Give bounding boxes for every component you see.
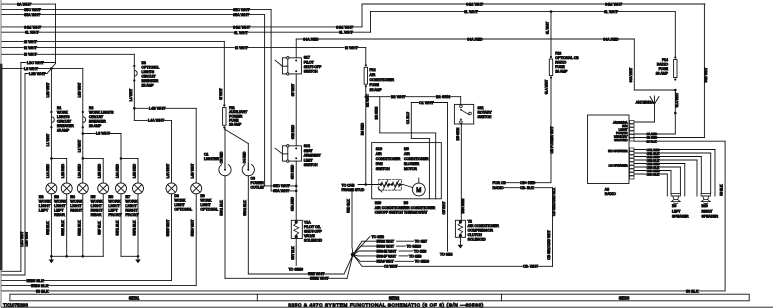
wire CB ground BLK drop bbox=[552, 188, 554, 267]
svg-text:L1 WHT: L1 WHT bbox=[46, 134, 50, 146]
svg-text:B5A GRN: B5A GRN bbox=[461, 198, 465, 213]
wire 6LA WHT to radio pin bbox=[674, 90, 676, 134]
wire lamp E4 ground lead bbox=[82, 194, 84, 257]
svg-text:55A2 BLK: 55A2 BLK bbox=[243, 200, 247, 216]
label 2I WHT left bbox=[24, 40, 37, 44]
wire 64B WHT drop bbox=[703, 4, 705, 138]
wire radio memory 64B bbox=[634, 137, 704, 139]
solenoid Y2 compressor clutch bbox=[455, 220, 465, 237]
wire CB- BLK bbox=[504, 187, 553, 189]
label 6L WHT mid1 bbox=[234, 31, 247, 35]
svg-text:64M WHT: 64M WHT bbox=[466, 2, 484, 6]
wire CH3 BLK bbox=[634, 166, 680, 168]
svg-text:55F BLK: 55F BLK bbox=[98, 221, 102, 235]
svg-text:M: M bbox=[416, 188, 421, 194]
wire lamp E2 top lead bbox=[50, 158, 52, 183]
wire L3 WHT feeder bbox=[2, 67, 83, 69]
wire CB+ RED bbox=[504, 182, 551, 184]
junction work light feed bbox=[50, 67, 53, 70]
motor M6 blower bbox=[403, 178, 425, 196]
svg-text:RH SPEAKER: RH SPEAKER bbox=[608, 149, 628, 153]
page edge line bbox=[0, 0, 2, 307]
wire feeder E2-E3 bbox=[51, 157, 66, 159]
svg-text:TO SE7: TO SE7 bbox=[415, 240, 427, 244]
svg-text:L3A RED: L3A RED bbox=[116, 163, 120, 177]
label 55E2 WHT bbox=[310, 276, 327, 280]
svg-text:L1B RED: L1B RED bbox=[61, 163, 65, 178]
svg-text:TO SE9: TO SE9 bbox=[409, 254, 421, 258]
svg-text:56 BLK: 56 BLK bbox=[36, 289, 49, 293]
wire radio IGN 6A RED bbox=[634, 133, 675, 135]
svg-text:6L WHT: 6L WHT bbox=[25, 31, 39, 35]
label 64M WHT right1 bbox=[466, 2, 481, 6]
svg-text:55G4F WHT: 55G4F WHT bbox=[377, 254, 398, 258]
wire 55E WHT to harness splice bbox=[248, 273, 344, 275]
wire B2 WHT line bbox=[366, 96, 461, 98]
wire 64A WHT drop to radio supply bbox=[633, 39, 635, 90]
label CH1 RED bbox=[646, 148, 658, 151]
label 65A WHT low bbox=[273, 189, 288, 193]
svg-text:CB POWER WHT: CB POWER WHT bbox=[550, 126, 554, 153]
wire 65A vertical drop bbox=[264, 15, 266, 186]
svg-text:SE31: SE31 bbox=[129, 296, 140, 301]
label 6L WHT right1 bbox=[464, 10, 477, 14]
lamp E7 bbox=[133, 183, 144, 194]
wire feeder E6-E7 bbox=[121, 157, 138, 159]
svg-text:2I WHT: 2I WHT bbox=[24, 40, 38, 44]
wire lamp E4 top lead bbox=[82, 158, 84, 183]
svg-text:64B WHT: 64B WHT bbox=[704, 68, 708, 83]
switch S17 pilot shut-off bbox=[275, 57, 301, 76]
svg-text:SE33: SE33 bbox=[619, 296, 630, 301]
fuse F13 optional cab radio 10A bbox=[550, 56, 552, 58]
svg-text:L4A WHT: L4A WHT bbox=[166, 164, 170, 179]
wire lighter ground bbox=[224, 176, 226, 278]
svg-text:L2 WHT: L2 WHT bbox=[77, 140, 81, 152]
svg-text:B2 GRN: B2 GRN bbox=[375, 106, 379, 119]
junction L3 node bbox=[82, 132, 85, 135]
frame divider 2 bbox=[501, 294, 503, 301]
splice harness node bbox=[351, 252, 355, 256]
svg-text:ANTENNAIGNLIGHTPOWERMEMORYGROU: ANTENNAIGNLIGHTPOWERMEMORYGROUND bbox=[613, 121, 628, 143]
label CH2 BLK bbox=[646, 159, 658, 162]
svg-text:64A RED: 64A RED bbox=[603, 37, 619, 41]
svg-text:6L WHT: 6L WHT bbox=[234, 31, 248, 35]
svg-text:64M WHT: 64M WHT bbox=[336, 25, 354, 29]
fuse F14 radio 10A bbox=[674, 56, 676, 58]
label 6B RED bbox=[646, 136, 656, 139]
solenoid valve Y1A pilot oil shut-off bbox=[291, 220, 302, 238]
label CB- WHT bbox=[523, 265, 537, 269]
label 36 BLK bbox=[646, 140, 656, 143]
label I3 WHT left bbox=[24, 53, 37, 57]
breaker B3 optional lights 25A bbox=[133, 65, 135, 67]
wire lamp E6 ground lead bbox=[120, 194, 122, 257]
wire power outlet branch bbox=[224, 129, 248, 144]
junction 65A bbox=[295, 190, 298, 193]
speaker B9 left bbox=[671, 194, 680, 204]
label 6L WHT left bbox=[25, 30, 38, 34]
label CH2 RED bbox=[646, 155, 658, 158]
wire CH3 RED bbox=[634, 163, 685, 165]
thermostat dashed enclosure bbox=[379, 179, 402, 190]
svg-text:I3 WHT: I3 WHT bbox=[24, 53, 38, 57]
wire 65C vertical drop bbox=[270, 10, 272, 191]
svg-text:55E2 BLK: 55E2 BLK bbox=[77, 220, 81, 236]
wire F12 feed from I2 bbox=[365, 48, 367, 66]
lamp D9 optional bbox=[166, 183, 177, 194]
svg-text:65B RED: 65B RED bbox=[291, 124, 295, 139]
label 65A WHT mid bbox=[233, 13, 248, 17]
frame divider 1 bbox=[256, 294, 258, 301]
svg-text:6LA WHT: 6LA WHT bbox=[675, 93, 679, 108]
svg-text:325C & 437C SYSTEM FUNCTIONAL: 325C & 437C SYSTEM FUNCTIONAL SCHEMATIC … bbox=[288, 302, 484, 308]
wire 6L WHT bus with jog up bbox=[2, 31, 371, 33]
svg-text:CB- BLK: CB- BLK bbox=[520, 186, 534, 190]
wire lamp E5 top lead bbox=[102, 158, 104, 183]
junction blower feed bbox=[365, 183, 368, 186]
svg-text:65C RED: 65C RED bbox=[291, 164, 295, 179]
svg-text:6L WHT: 6L WHT bbox=[546, 22, 550, 34]
svg-text:6LA WHT: 6LA WHT bbox=[545, 80, 549, 95]
wire outlet ground bbox=[247, 176, 249, 274]
lamp E5 bbox=[98, 183, 109, 194]
label L4A WHT bbox=[148, 119, 163, 123]
junction gnd E4 bbox=[82, 255, 85, 258]
junction gnd E7 bbox=[137, 255, 140, 258]
svg-text:65A WHT: 65A WHT bbox=[24, 13, 41, 17]
radio A3 box bbox=[588, 115, 630, 184]
wire 65 RED S17 to S12 bbox=[295, 74, 297, 146]
wire L3C WHT stub bbox=[21, 62, 56, 64]
wire B1 feed bbox=[50, 68, 52, 158]
label 6L WHT mid2 bbox=[339, 30, 352, 34]
wire CH4 BLK bbox=[634, 173, 667, 175]
svg-text:TO SE30: TO SE30 bbox=[289, 268, 303, 272]
svg-text:56 BLK: 56 BLK bbox=[686, 289, 699, 293]
svg-text:L3 WHT: L3 WHT bbox=[96, 132, 111, 136]
svg-text:CB GROUND WHT: CB GROUND WHT bbox=[547, 230, 551, 259]
label I2 WHT left bbox=[24, 46, 37, 50]
svg-text:55B6 BLK: 55B6 BLK bbox=[31, 284, 49, 288]
svg-text:B3 RED: B3 RED bbox=[360, 122, 364, 135]
svg-text:ANTENNA: ANTENNA bbox=[636, 100, 654, 104]
label CB+ RED bbox=[520, 181, 534, 185]
svg-text:L2A RED: L2A RED bbox=[77, 163, 81, 177]
wire B2 feed bbox=[82, 68, 84, 133]
wire splice to SE3 bbox=[353, 237, 370, 255]
label CH4 RED bbox=[646, 169, 658, 172]
svg-text:55E1 BLK: 55E1 BLK bbox=[61, 220, 65, 236]
wire 65A WHT bus bbox=[2, 14, 265, 16]
blower assembly box bbox=[372, 143, 442, 199]
wire L4A WHT to lamp D9 bbox=[134, 119, 171, 121]
svg-text:55G3 WHT: 55G3 WHT bbox=[377, 245, 395, 249]
label 65C WHT mid bbox=[233, 8, 248, 12]
wire 55A6 WHT bbox=[353, 255, 360, 262]
lighter C1 bbox=[219, 163, 231, 176]
svg-text:L3B WHT: L3B WHT bbox=[46, 83, 50, 98]
svg-text:TO SE19: TO SE19 bbox=[407, 245, 421, 249]
wire CH2 BLK bbox=[634, 159, 697, 161]
wire I2 WHT bus bbox=[2, 47, 366, 49]
wire 55D BLK to splice bbox=[351, 192, 353, 248]
svg-text:64M WHT: 64M WHT bbox=[605, 2, 623, 6]
svg-text:3I WHT: 3I WHT bbox=[219, 88, 223, 100]
label 56 BLK left bbox=[36, 289, 49, 293]
wire 64A RED bus bbox=[296, 38, 634, 40]
svg-text:6L WHT: 6L WHT bbox=[339, 31, 353, 35]
junction L2 feeder bbox=[82, 157, 85, 160]
label L3 WHT right bbox=[96, 132, 109, 136]
label CH4 BLK bbox=[646, 173, 658, 176]
svg-text:L4B WHT: L4B WHT bbox=[149, 107, 166, 111]
wire lamp E7 top lead bbox=[137, 158, 139, 183]
wire L3 WHT to right lamps bbox=[83, 133, 121, 135]
svg-text:L3B WHT: L3B WHT bbox=[77, 83, 81, 98]
lamp E3 bbox=[61, 183, 72, 194]
junction 65D bbox=[295, 185, 298, 188]
wire 56 BLK ground line bbox=[2, 290, 725, 292]
svg-text:55B6 WHT: 55B6 WHT bbox=[191, 220, 195, 237]
svg-text:I2 WHT: I2 WHT bbox=[235, 46, 249, 50]
junction F14 output bbox=[674, 89, 677, 92]
fuse F11 auxiliary power 10A bbox=[223, 104, 225, 106]
svg-text:64M WHT: 64M WHT bbox=[24, 25, 42, 29]
ground left lamp group bbox=[49, 256, 55, 263]
label CH3 BLK bbox=[646, 166, 658, 169]
wire lamp E3 top lead bbox=[66, 158, 68, 183]
svg-text:L4A WHT: L4A WHT bbox=[148, 119, 165, 123]
antenna bbox=[635, 96, 660, 122]
wire lamp E2 ground lead bbox=[50, 194, 52, 257]
wire I3 WHT bus bbox=[2, 53, 134, 55]
wire radio memory link bbox=[634, 89, 675, 91]
wire radio ground 36 BLK bbox=[634, 140, 725, 142]
wire blower switch staircase A bbox=[379, 97, 381, 133]
wire B3 RED fuse to blower bbox=[365, 86, 367, 184]
label 56 BLK right bbox=[686, 289, 699, 293]
label 65C WHT bbox=[24, 8, 39, 12]
svg-text:L4 WHT: L4 WHT bbox=[129, 89, 133, 101]
svg-text:B5 GRN: B5 GRN bbox=[456, 127, 460, 140]
svg-text:L2B RED: L2B RED bbox=[98, 163, 102, 178]
wire CH1 RED bbox=[634, 149, 715, 151]
wire lamp E3 ground lead bbox=[66, 194, 68, 257]
svg-text:B2 GRN: B2 GRN bbox=[436, 95, 450, 99]
wire resistor feed stub bbox=[358, 184, 381, 186]
junction F12 output to blower bbox=[365, 95, 368, 98]
label 64M WHT left bbox=[24, 25, 39, 29]
svg-text:CB- WHT: CB- WHT bbox=[523, 265, 539, 269]
wire 65D WHT link bbox=[265, 185, 297, 187]
svg-text:64A WHT: 64A WHT bbox=[629, 68, 633, 83]
svg-text:65A WHT: 65A WHT bbox=[273, 189, 290, 193]
wire Y2 to ground bbox=[459, 237, 461, 241]
svg-text:I2 WHT: I2 WHT bbox=[345, 46, 359, 50]
svg-text:C1 BLU: C1 BLU bbox=[406, 112, 410, 124]
lamp E4 bbox=[77, 183, 88, 194]
junction L1 feeder bbox=[50, 157, 53, 160]
svg-text:55B5 BLK: 55B5 BLK bbox=[27, 279, 45, 283]
svg-text:55D BLK: 55D BLK bbox=[347, 198, 351, 212]
svg-text:TO SE4: TO SE4 bbox=[440, 253, 452, 257]
wire CB power WHT bbox=[550, 78, 552, 183]
svg-text:I2 WHT: I2 WHT bbox=[24, 46, 38, 50]
svg-text:LH SPEAKER: LH SPEAKER bbox=[609, 164, 629, 168]
label CH3 RED bbox=[646, 162, 658, 165]
wire lamp E5 ground lead bbox=[102, 194, 104, 257]
wire C5 WHT drop bbox=[447, 103, 449, 252]
wire lamp ground bus right bbox=[121, 255, 138, 257]
svg-text:L3 WHT: L3 WHT bbox=[24, 67, 39, 71]
wire 6A vertical drop bbox=[55, 4, 57, 63]
label C3 WHT bbox=[384, 265, 396, 269]
wire CH4 RED bbox=[634, 170, 671, 172]
svg-text:L1A RED: L1A RED bbox=[46, 163, 50, 177]
svg-text:CH4 BLK: CH4 BLK bbox=[647, 172, 660, 176]
fuse F12 air conditioner 15A bbox=[365, 64, 367, 66]
label I2 WHT mid2 bbox=[345, 46, 358, 50]
wire 6A WHT top bus bbox=[2, 3, 56, 5]
wire left riser L3C bbox=[20, 63, 22, 272]
label 64M WHT mid2 bbox=[336, 25, 351, 29]
ground right lamp group bbox=[135, 256, 141, 263]
junction L4 node bbox=[133, 107, 136, 110]
svg-text:6L WHT: 6L WHT bbox=[604, 10, 618, 14]
wire 65A WHT link bbox=[271, 190, 296, 192]
svg-text:65 WHT: 65 WHT bbox=[291, 84, 295, 96]
label 64A RED left bbox=[303, 37, 318, 41]
wire L4B WHT to lamp E9 bbox=[134, 107, 196, 109]
wire F14 feed bbox=[674, 12, 676, 57]
label CB- BLK bbox=[520, 186, 534, 190]
label 65D WHT bbox=[273, 184, 288, 188]
label L3C WHT bbox=[27, 61, 42, 65]
resistor R blower resistors bbox=[376, 180, 403, 192]
svg-text:64A RED: 64A RED bbox=[467, 37, 483, 41]
label B2 GRN bbox=[436, 95, 449, 99]
label L4B WHT bbox=[149, 106, 164, 110]
label I2 WHT mid1 bbox=[235, 46, 248, 50]
wire lamp E6 top lead bbox=[120, 158, 122, 183]
svg-text:36 BLK: 36 BLK bbox=[647, 139, 657, 143]
svg-text:C5 WHT: C5 WHT bbox=[442, 202, 446, 215]
svg-text:CB+ RED: CB+ RED bbox=[520, 181, 536, 185]
label 64A RED right bbox=[603, 37, 618, 41]
speaker B10 right bbox=[701, 194, 710, 204]
wire F11 feed from 2I bbox=[223, 41, 225, 105]
svg-text:6A WHT: 6A WHT bbox=[17, 2, 32, 6]
wire E9 ground bbox=[195, 194, 197, 286]
wire feeder E4-E5 bbox=[83, 157, 103, 159]
wire 65C WHT bus bbox=[2, 9, 271, 11]
svg-text:TO SE9: TO SE9 bbox=[414, 249, 426, 253]
frame caption rule bottom bbox=[2, 306, 773, 308]
svg-text:C3 RED: C3 RED bbox=[219, 151, 223, 163]
wire B2 GRN corner into S21 bbox=[460, 97, 462, 104]
label 55E WHT bbox=[308, 272, 323, 276]
wire 64M WHT bus with jog up bbox=[2, 26, 362, 28]
label 55B6 BLK bbox=[31, 284, 48, 288]
wire 55G2 WHT bbox=[353, 241, 362, 254]
wire 55E2 WHT to harness splice bbox=[225, 277, 347, 279]
svg-text:55F2 BLK: 55F2 BLK bbox=[133, 220, 137, 236]
frame section bar bbox=[10, 294, 749, 301]
wire 55G3 WHT bbox=[353, 246, 361, 255]
scan edge bar left bbox=[0, 64, 2, 271]
svg-text:L3B WHT: L3B WHT bbox=[29, 72, 46, 76]
wire lamp E7 ground lead bbox=[137, 194, 139, 257]
wire lamp ground bus left bbox=[51, 255, 103, 257]
wire B3 feed from I3 bbox=[133, 54, 135, 120]
wire D9 ground bbox=[171, 194, 173, 281]
wire CH2 RED bbox=[634, 156, 701, 158]
svg-text:65A WHT: 65A WHT bbox=[233, 13, 250, 17]
svg-text:65C WHT: 65C WHT bbox=[233, 8, 250, 12]
svg-text:TX1075293: TX1075293 bbox=[3, 302, 28, 307]
wire left riser L3B bbox=[24, 74, 26, 276]
label 6L WHT right2 bbox=[604, 10, 617, 14]
wire S17 feed drop bbox=[295, 39, 297, 58]
svg-text:L3C WHT: L3C WHT bbox=[27, 61, 44, 65]
svg-text:55A6 WHT: 55A6 WHT bbox=[377, 260, 395, 264]
lamp E6 bbox=[116, 183, 127, 194]
svg-text:SE32: SE32 bbox=[389, 296, 400, 301]
svg-text:64A RED: 64A RED bbox=[303, 37, 319, 41]
svg-text:55E2 WHT: 55E2 WHT bbox=[310, 277, 329, 281]
wire CH1 BLK bbox=[634, 152, 711, 154]
label CH1 BLK bbox=[646, 152, 658, 155]
wire C1 WHT link bbox=[411, 102, 447, 104]
wire L2 WHT drop bbox=[82, 134, 84, 159]
wire 2I WHT bus bbox=[2, 40, 224, 42]
svg-text:C3 WHT: C3 WHT bbox=[384, 265, 398, 269]
switch S12 seat armrest bbox=[275, 145, 301, 163]
label 6A WHT bbox=[17, 2, 30, 6]
svg-text:55G4E WHT: 55G4E WHT bbox=[377, 249, 398, 253]
breaker B1 work lights 15A bbox=[50, 111, 52, 113]
label 55B5 BLK bbox=[26, 279, 43, 283]
svg-text:C4 RED: C4 RED bbox=[243, 151, 247, 163]
wire 65C RED S12 to valve bbox=[295, 161, 297, 220]
radio connector pins bbox=[630, 121, 635, 180]
lamp E2 bbox=[46, 183, 57, 194]
breaker B2 work lights 20A bbox=[82, 111, 84, 113]
svg-text:L4B WHT: L4B WHT bbox=[191, 164, 195, 179]
wire valve to SE30 bbox=[295, 239, 297, 266]
wire B5 GRN S21 to clutch bbox=[460, 124, 462, 220]
switch S21 rotary bbox=[454, 104, 473, 124]
svg-text:65C WHT: 65C WHT bbox=[24, 8, 41, 12]
wire F13 feed bbox=[550, 10, 553, 13]
label B2 WHT bbox=[391, 95, 404, 99]
junction gnd E3 bbox=[65, 255, 68, 258]
svg-text:TO SE3: TO SE3 bbox=[372, 235, 384, 239]
wire C1 BLU staircase B bbox=[410, 103, 412, 139]
svg-text:64M WHT: 64M WHT bbox=[233, 26, 251, 30]
label 65A WHT bbox=[24, 13, 39, 17]
power outlet C6 bbox=[242, 163, 254, 176]
svg-text:55T BLK: 55T BLK bbox=[291, 246, 295, 260]
label C1 WHT bbox=[419, 101, 432, 105]
svg-text:C1 WHT: C1 WHT bbox=[419, 101, 434, 105]
wire 55B5 BLK ground line bbox=[2, 279, 172, 281]
svg-text:B2 WHT: B2 WHT bbox=[391, 95, 406, 99]
svg-text:TO SE19: TO SE19 bbox=[415, 260, 429, 264]
wire lighter feed bbox=[224, 127, 226, 169]
svg-text:55E BLK: 55E BLK bbox=[46, 221, 50, 235]
